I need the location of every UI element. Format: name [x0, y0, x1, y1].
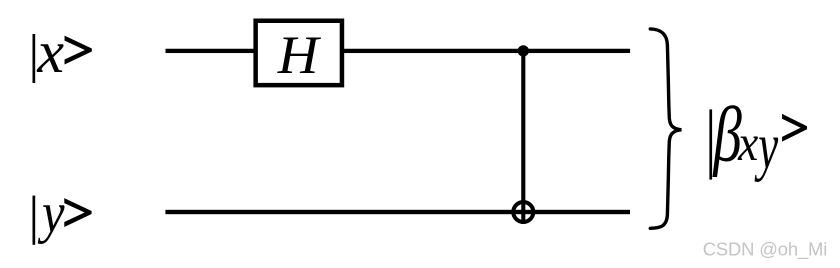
svg-text:H: H: [277, 25, 322, 85]
qubit wire bottom: [165, 210, 630, 214]
output brace: [650, 29, 681, 228]
ket |x> input label: [33, 19, 95, 85]
Hadamard gate box: [256, 21, 342, 85]
ket |y> input label: [33, 181, 95, 244]
CNOT control dot: [518, 45, 529, 56]
Hadamard gate label H: [277, 25, 322, 85]
qubit wire top: [166, 49, 631, 53]
svg-text:>: >: [62, 183, 94, 242]
subscript y: [754, 111, 779, 184]
CNOT target XOR circle: [513, 202, 533, 222]
svg-text:y: y: [754, 111, 779, 184]
svg-text:x: x: [36, 19, 64, 85]
svg-text:>: >: [780, 100, 809, 157]
ket |beta_xy> output label: [709, 91, 809, 183]
CNOT vertical link: [521, 51, 525, 224]
beta bar: [709, 109, 712, 179]
subscript x: [737, 115, 759, 171]
beta glyph: [712, 91, 742, 178]
svg-text:CSDN @oh_Mi: CSDN @oh_Mi: [703, 238, 827, 260]
svg-text:>: >: [62, 20, 94, 79]
svg-text:y: y: [37, 181, 64, 244]
svg-text:x: x: [737, 115, 759, 171]
